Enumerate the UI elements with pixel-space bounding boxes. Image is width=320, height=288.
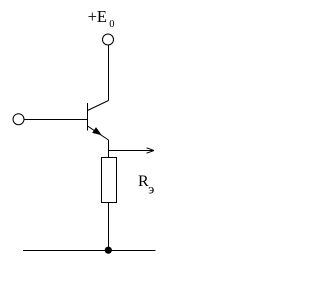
svg-text:э: э bbox=[148, 183, 154, 198]
svg-text:+E: +E bbox=[88, 7, 107, 26]
svg-text:0: 0 bbox=[109, 19, 114, 30]
